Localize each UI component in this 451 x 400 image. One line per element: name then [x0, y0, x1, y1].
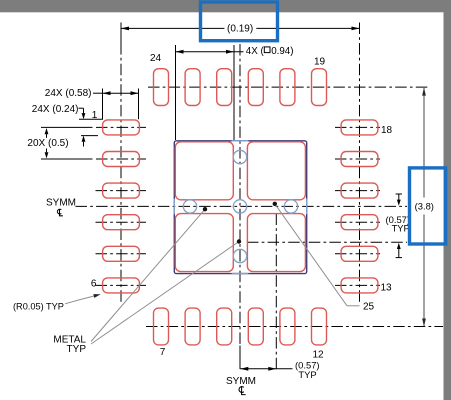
svg-text:TYP: TYP	[67, 344, 87, 355]
svg-text:TYP: TYP	[298, 369, 316, 380]
svg-text:19: 19	[314, 56, 326, 67]
svg-text:24X (0.58): 24X (0.58)	[45, 88, 92, 99]
svg-text:4X (: 4X (	[246, 46, 265, 57]
svg-text:13: 13	[380, 283, 392, 294]
svg-text:25: 25	[363, 302, 375, 313]
svg-text:SYMM: SYMM	[46, 198, 76, 209]
svg-text:(0.19): (0.19)	[227, 23, 253, 34]
svg-text:SYMM: SYMM	[226, 376, 256, 387]
svg-text:20X (0.5): 20X (0.5)	[27, 138, 68, 149]
svg-text:0.94): 0.94)	[271, 46, 293, 57]
svg-text:12: 12	[312, 350, 324, 361]
svg-text:(R0.05) TYP: (R0.05) TYP	[13, 301, 64, 311]
svg-text:24: 24	[150, 53, 162, 64]
svg-text:6: 6	[91, 279, 97, 290]
svg-text:18: 18	[381, 125, 393, 136]
svg-text:24X (0.24): 24X (0.24)	[32, 104, 79, 115]
svg-text:(3.8): (3.8)	[415, 201, 434, 212]
svg-text:7: 7	[160, 347, 166, 358]
svg-text:1: 1	[92, 110, 98, 121]
svg-text:TYP: TYP	[392, 222, 410, 233]
